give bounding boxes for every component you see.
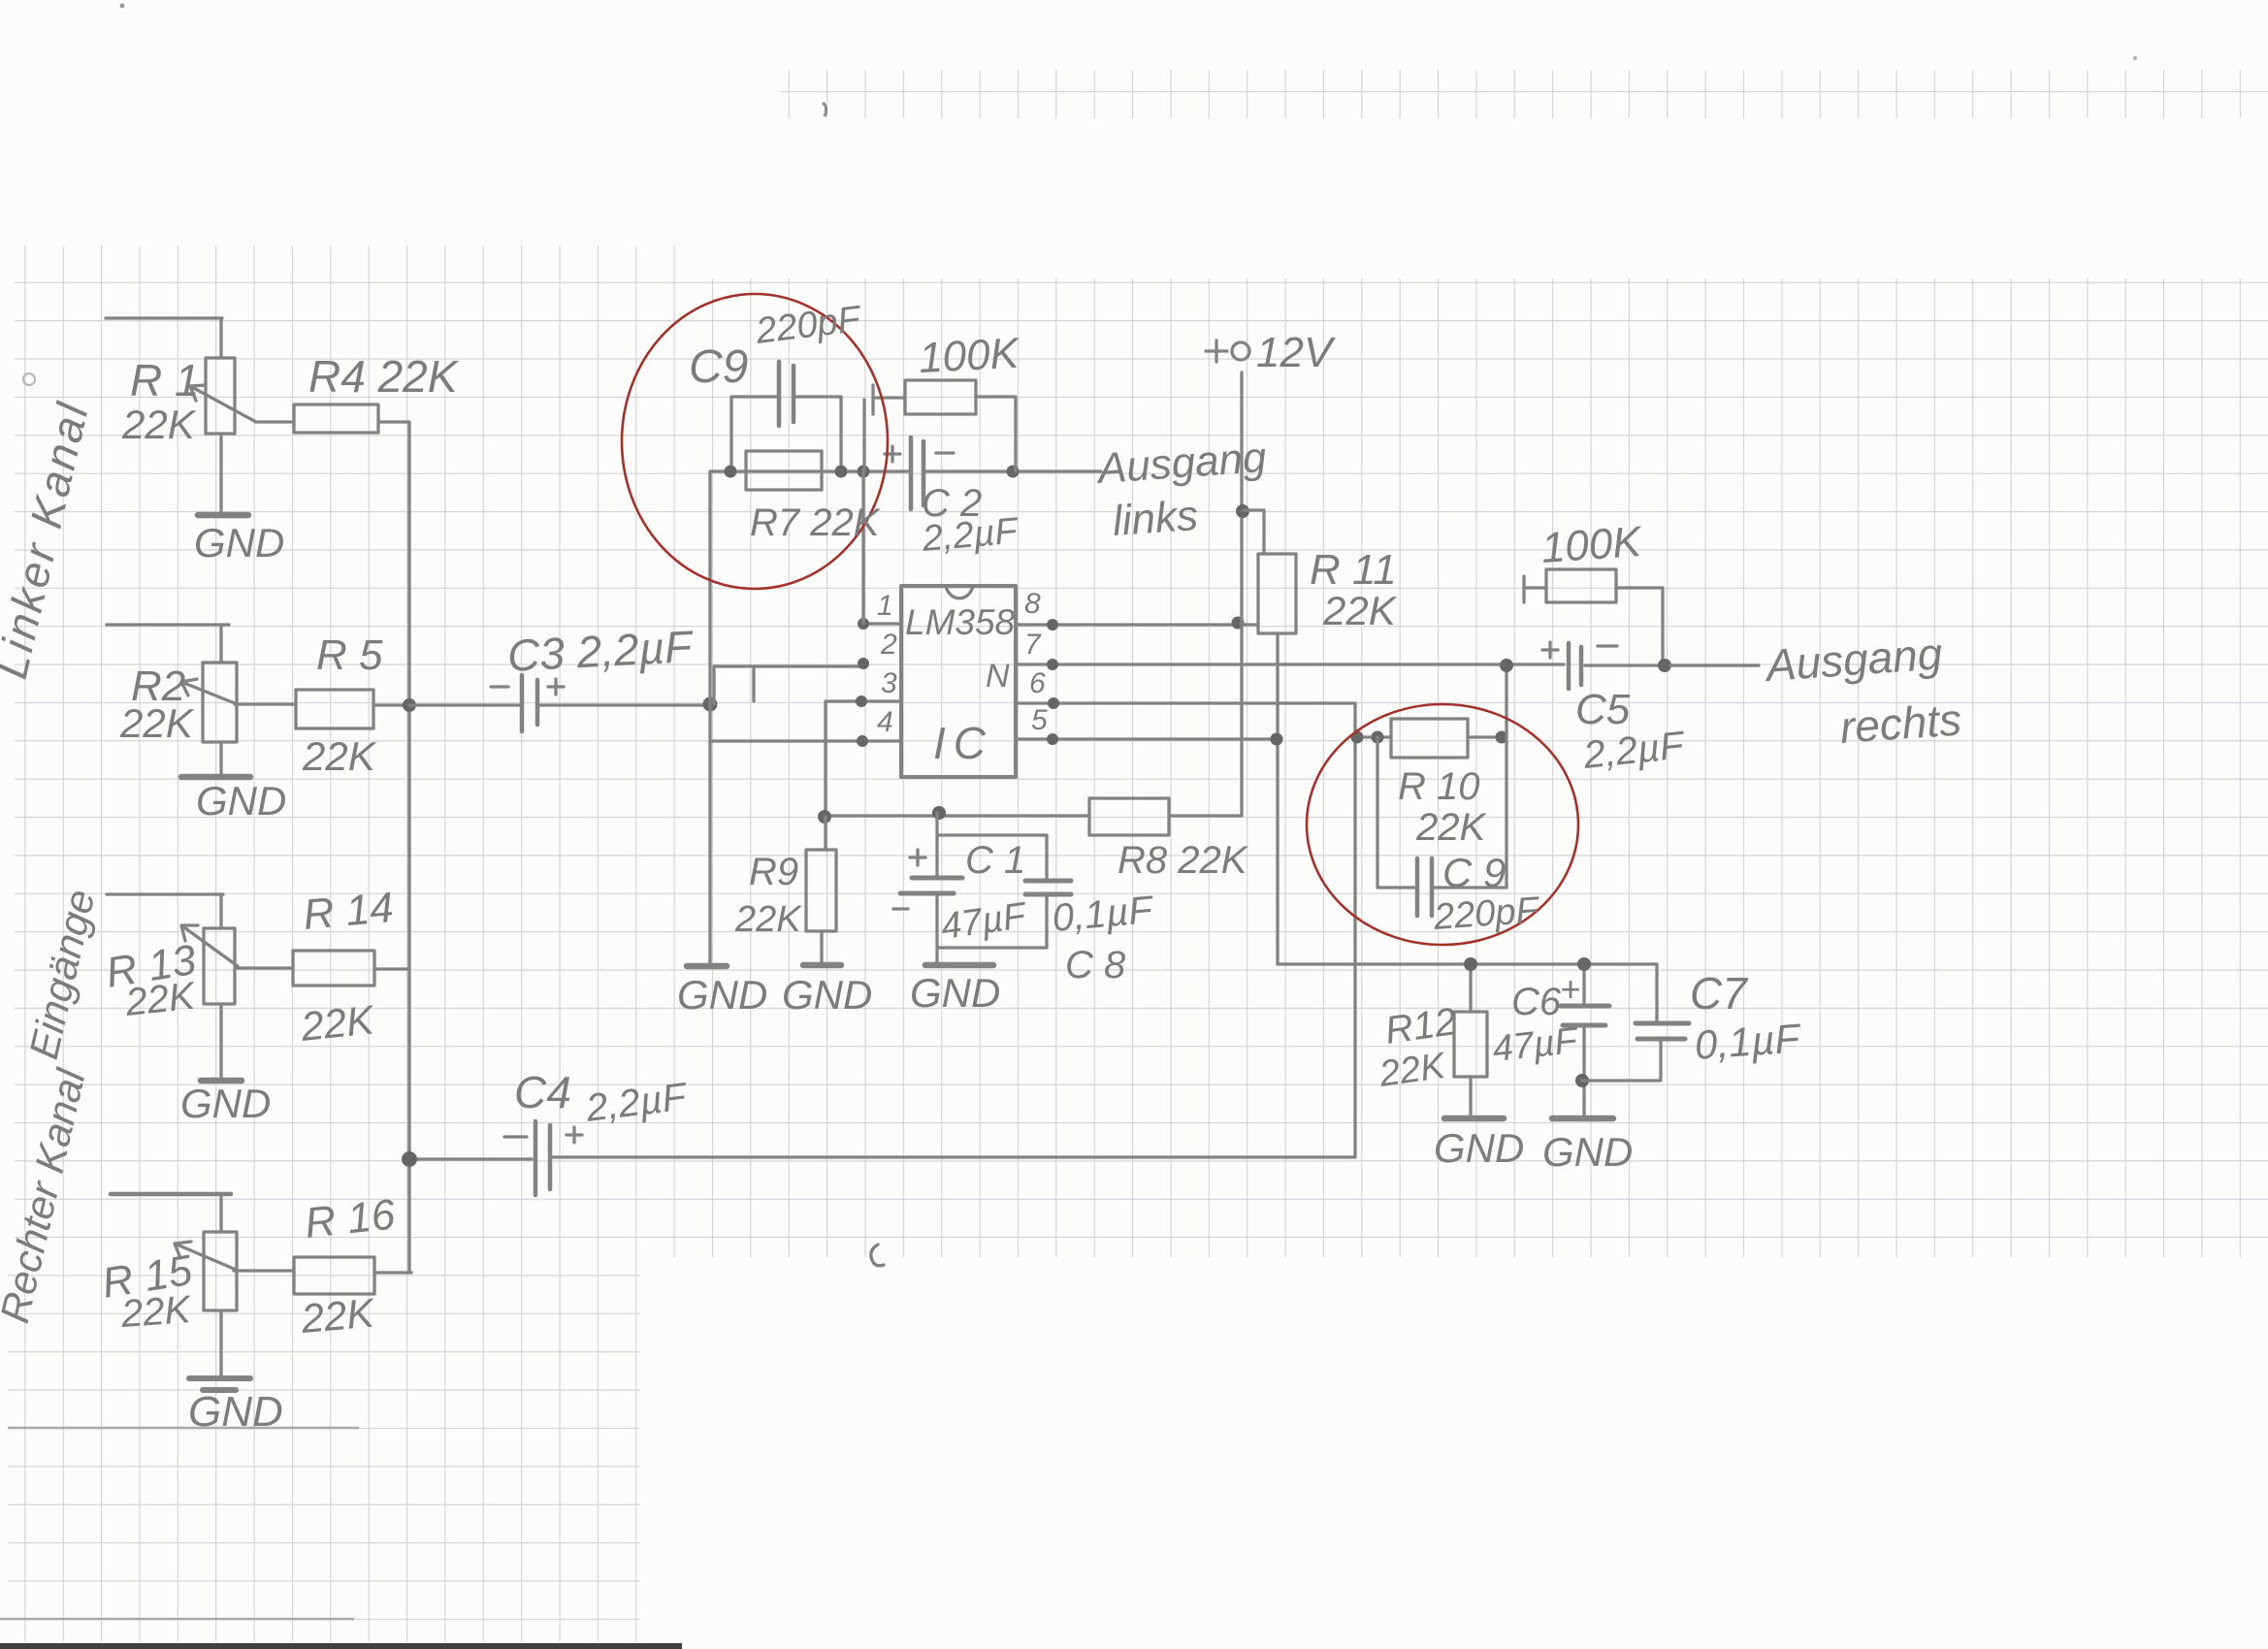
ground under GND drop [687, 963, 727, 970]
svg-text:C 1: C 1 [965, 839, 1025, 882]
resistor R6 100K right lead [976, 397, 1016, 471]
stray pencil dot top-left [120, 4, 125, 9]
node pin2 [858, 658, 869, 669]
C1 minus sign [893, 907, 908, 910]
ground under C1 [925, 962, 993, 969]
stray ring mark left [23, 373, 35, 385]
capacitor C1 plates [900, 878, 962, 893]
node R7 left [725, 466, 737, 478]
svg-text:links: links [1111, 492, 1199, 545]
capacitor C6 plates [1561, 1006, 1609, 1025]
ground under R9 [803, 962, 841, 969]
svg-text:R 10: R 10 [1398, 765, 1480, 808]
svg-text:rechts: rechts [1838, 694, 1963, 753]
svg-text:R 11: R 11 [1310, 546, 1397, 594]
node C5 right junction [1658, 659, 1671, 672]
node pin1 takeoff [858, 466, 870, 478]
wire pin1 drop [861, 471, 864, 624]
C1 plus sign [910, 850, 925, 865]
node pin8 12V junction [1232, 617, 1245, 630]
node R10 left a [1351, 731, 1364, 744]
node pin1 [858, 618, 869, 630]
svg-text:22K: 22K [119, 1288, 194, 1336]
wire R11 bottom lead to pin5 and R12 bus [1276, 633, 1279, 964]
wire R13 wiper to R14 [238, 966, 293, 969]
svg-text:C6: C6 [1511, 981, 1562, 1023]
capacitor C9 right loop [794, 397, 841, 471]
wire C8 parallel loop top [937, 835, 1047, 881]
svg-text:22K: 22K [299, 1289, 378, 1342]
svg-text:22K: 22K [122, 975, 199, 1025]
resistor R6 100K body [905, 380, 976, 414]
node 100K output junction [1007, 466, 1020, 478]
svg-text:1: 1 [877, 590, 893, 622]
node R12 bus junction [1464, 957, 1477, 971]
svg-text:22K: 22K [734, 899, 802, 940]
op-amp IC LM358 body [901, 586, 1016, 777]
svg-text:C 9: C 9 [1442, 850, 1506, 895]
node pin3 [856, 695, 867, 707]
capacitor C5 plates [1569, 643, 1581, 689]
svg-text:22K: 22K [302, 733, 377, 779]
resistor R6 100K left terminal [864, 385, 905, 471]
node pin6 [1048, 697, 1059, 709]
wire R9 bottom lead [820, 931, 823, 965]
node C5 left junction [1500, 659, 1513, 672]
svg-text:+: + [1560, 969, 1580, 1009]
svg-text:R 5: R 5 [316, 631, 383, 679]
potentiometer R15 [204, 1232, 237, 1310]
svg-text:N: N [986, 658, 1010, 695]
wire R15 to ground [219, 1310, 222, 1378]
grid main right block [689, 278, 2268, 1257]
node C1 bus junction [932, 806, 946, 820]
svg-text:GND: GND [196, 778, 286, 824]
resistor R12 [1454, 1012, 1487, 1077]
node R5/C3/bus junction [403, 698, 416, 712]
svg-text:R 16: R 16 [303, 1190, 398, 1247]
capacitor C6 top lead [1582, 964, 1585, 1006]
grid top strip [781, 70, 2268, 118]
capacitor C3 right lead [537, 703, 710, 706]
wire R12 bottom lead [1469, 1077, 1472, 1118]
svg-text:GND: GND [910, 970, 1000, 1016]
capacitor C2 plates [911, 437, 923, 509]
grid bottom-left block [8, 1257, 640, 1641]
capacitor C3 plates [522, 675, 537, 731]
svg-text:3: 3 [881, 667, 897, 699]
capacitor C4 plates [535, 1121, 550, 1195]
svg-text:GND: GND [194, 520, 284, 566]
svg-text:12V: 12V [1256, 329, 1336, 376]
svg-text:R8 22K: R8 22K [1118, 839, 1249, 882]
svg-text:C9: C9 [689, 341, 748, 393]
svg-text:C5: C5 [1575, 686, 1631, 733]
power +12V label terminal circle [1232, 342, 1249, 360]
svg-text:GND: GND [677, 972, 767, 1018]
capacitor C9 plates [779, 362, 794, 426]
capacitor C8 plates [1025, 881, 1071, 894]
C5 plus sign [1542, 642, 1558, 658]
svg-text:R9: R9 [749, 851, 798, 893]
svg-text:C7: C7 [1690, 968, 1748, 1018]
ground under R12 [1444, 1115, 1504, 1122]
node 12V to R11 junction [1236, 504, 1249, 518]
svg-text:4: 4 [877, 706, 893, 738]
svg-text:R7 22K: R7 22K [750, 501, 882, 544]
wiper arrow R13 [181, 925, 238, 966]
svg-text:R4 22K: R4 22K [308, 351, 460, 402]
wire R12 C6 C7 top bus [1278, 962, 1657, 965]
node R10 left b [1372, 731, 1384, 744]
svg-text:GND: GND [188, 1388, 283, 1436]
wire pin 3 stub and drop to R9 bus [826, 701, 901, 817]
node C3 to IC junction [703, 697, 718, 712]
wire C8 parallel loop bottom [937, 894, 1047, 948]
wire R5 right lead [373, 703, 408, 706]
wire pin 4 line [711, 739, 901, 742]
wire R10 left lead [1355, 735, 1391, 738]
node R10 right [1496, 731, 1508, 744]
svg-text:100K: 100K [918, 330, 1021, 382]
wire R1 to ground [219, 434, 222, 515]
wire bus R4 down to R16 [407, 422, 410, 1271]
stray squiggle mark [871, 1245, 884, 1266]
capacitor C7 bottom lead [1582, 1039, 1661, 1081]
wiper arrow R15 [175, 1242, 234, 1269]
darker ruled line bottom-left [0, 1618, 354, 1621]
C2 minus sign [936, 451, 954, 454]
capacitor C4 left lead [409, 1157, 532, 1160]
node C6 bus junction [1577, 957, 1591, 971]
IC notch [946, 586, 973, 598]
wiper arrow R1 [190, 385, 256, 422]
node R11 pin5 junction [1271, 733, 1283, 746]
resistor 100K right lead down [1616, 588, 1663, 665]
ground under R13 [201, 1078, 242, 1084]
wire R9 top lead [824, 817, 826, 850]
wire pin 7 output line [1016, 664, 1759, 665]
wire input 3 [107, 892, 223, 895]
wire pin 6 line and drop to C4 bus [1016, 703, 1355, 1157]
resistor R7 [746, 451, 822, 490]
capacitor C7 top lead [1655, 964, 1658, 1023]
node C6 C7 bottom junction [1575, 1074, 1589, 1087]
wire R1 wiper to R4 [256, 420, 294, 423]
ground under R2 [181, 774, 250, 781]
C5 minus sign [1598, 644, 1617, 647]
wire pin 1 stub [863, 622, 901, 625]
wire inverting input main line left part [711, 469, 910, 472]
resistor R16 [294, 1257, 374, 1294]
svg-text:R 1: R 1 [130, 355, 200, 405]
svg-text:22K: 22K [119, 700, 195, 746]
wire R13 to ground [219, 1004, 222, 1081]
node pin7 [1047, 659, 1058, 670]
wire R16 right lead to bus [374, 1271, 411, 1274]
power +12V label plus [1206, 340, 1227, 362]
node R7 right [835, 466, 848, 478]
capacitor C7 plates [1636, 1023, 1689, 1039]
capacitor C1 bottom lead [935, 893, 938, 965]
red highlight circle around R10 C9 [1307, 704, 1578, 945]
svg-text:220pF: 220pF [1432, 889, 1541, 938]
wire R9 C1 R8 bus [823, 814, 1089, 817]
wire R15 top lead [219, 1194, 222, 1232]
darker ruled line lower-left [8, 1427, 359, 1430]
node pin5 [1047, 733, 1058, 745]
resistor R4 [294, 404, 378, 433]
wire pin 8 line to R11 [1016, 623, 1258, 626]
C3 minus sign [491, 685, 508, 688]
wire R14 right lead to bus [374, 967, 408, 970]
capacitor C3 left lead [409, 703, 522, 706]
resistor R5 [296, 690, 373, 728]
capacitor C1 top lead [935, 813, 938, 878]
wire pin2 to pin3 tie [752, 666, 755, 701]
svg-text:C3 2,2µF: C3 2,2µF [506, 621, 696, 681]
wiper arrow R2 [181, 679, 235, 703]
stray comma mark [823, 103, 826, 116]
wire R13 top lead [219, 894, 222, 928]
C4 plus sign [567, 1127, 582, 1143]
potentiometer R13 [204, 928, 235, 1004]
stray dot top-right [2133, 56, 2137, 60]
potentiometer R1 [206, 358, 235, 434]
svg-text:0,1µF: 0,1µF [1693, 1015, 1803, 1068]
C4 minus sign [504, 1135, 527, 1138]
wire R15 wiper to R16 [234, 1269, 294, 1272]
svg-text:22K: 22K [1415, 806, 1487, 849]
node C4 bus junction [402, 1151, 417, 1167]
svg-text:2,2µF: 2,2µF [920, 510, 1021, 560]
ground under R15 [189, 1378, 250, 1390]
wire input 4 [111, 1192, 231, 1197]
svg-text:GND: GND [782, 972, 872, 1018]
capacitor C4 right lead bus to pin6 drop [553, 1155, 1354, 1158]
wire R10 right lead [1468, 735, 1507, 738]
svg-text:C4: C4 [514, 1067, 571, 1117]
C3 plus sign [548, 679, 564, 695]
resistor R14 [293, 951, 374, 986]
capacitor C9 right channel right loop [1432, 665, 1507, 888]
svg-text:LM358: LM358 [905, 602, 1016, 642]
wire pin 5 line [1016, 737, 1277, 740]
node pin8 [1047, 619, 1058, 630]
C2 plus sign [885, 446, 900, 462]
ground under R1 [198, 512, 248, 519]
wire C2 to output links line [924, 469, 1101, 472]
node pin4 [857, 735, 868, 747]
wire R2 to ground [219, 742, 222, 777]
red highlight circle around C9 R7 [622, 294, 888, 589]
wire R1 top lead [219, 318, 222, 358]
svg-text:GND: GND [180, 1081, 271, 1126]
svg-text:5: 5 [1031, 704, 1048, 736]
svg-text:22K: 22K [1322, 588, 1398, 633]
grid main left block [15, 245, 689, 1257]
wire R2 wiper to R5 [235, 702, 296, 705]
capacitor C9 right channel left loop [1377, 737, 1414, 888]
wire R4 right lead [378, 420, 408, 423]
svg-text:22K: 22K [298, 996, 377, 1050]
resistor R10 [1391, 719, 1468, 758]
svg-text:GND: GND [1434, 1125, 1524, 1171]
svg-text:C 8: C 8 [1065, 944, 1126, 986]
capacitor C9 right channel plates [1417, 858, 1432, 916]
svg-text:2: 2 [880, 629, 897, 661]
wire step to pin 2 [714, 666, 863, 704]
svg-text:GND: GND [1542, 1129, 1633, 1175]
svg-text:R 14: R 14 [302, 884, 396, 939]
wire R8 right lead [1169, 814, 1242, 817]
svg-text:IC: IC [933, 718, 993, 768]
wire GND drop from R7 node through C3 node [708, 471, 711, 966]
svg-text:0,1µF: 0,1µF [1051, 889, 1156, 940]
svg-text:6: 6 [1029, 667, 1046, 699]
node R9 bus junction [818, 810, 831, 824]
wire input 1 left channel [106, 316, 222, 319]
resistor 100K right body [1546, 569, 1616, 602]
dark scan edge line bottom [0, 1643, 682, 1649]
potentiometer R2 [203, 663, 237, 742]
svg-text:8: 8 [1024, 588, 1041, 620]
ground under C6 [1552, 1115, 1613, 1122]
svg-text:100K: 100K [1539, 518, 1644, 572]
resistor 100K right terminal [1524, 576, 1546, 602]
resistor R12 top lead [1469, 964, 1472, 1012]
wire 12V jog to R11 [1243, 510, 1264, 554]
wire input 2 [107, 623, 229, 626]
capacitor C9 left loop [731, 397, 779, 471]
wire R2 top lead [219, 625, 222, 663]
resistor R8 [1089, 798, 1169, 835]
power +12V rail [1240, 372, 1243, 816]
capacitor C6 bottom lead [1582, 1025, 1585, 1118]
svg-text:7: 7 [1024, 629, 1042, 661]
svg-text:22K: 22K [121, 402, 197, 447]
resistor R9 [806, 850, 836, 931]
wire output rechts [1670, 663, 1759, 666]
resistor R11 [1258, 554, 1296, 633]
